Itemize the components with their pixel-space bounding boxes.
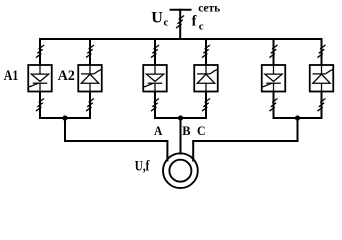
thyristor box col5 xyxy=(262,65,286,92)
thyristor box col6 xyxy=(310,65,334,92)
wire: top vertical col1 xyxy=(39,39,41,65)
wire: bottom vertical col2 xyxy=(89,92,91,119)
thyristor symbol col5 (cathode down) xyxy=(262,65,283,92)
thyristor symbol col3 (cathode down) xyxy=(143,65,164,92)
thyristor symbol col2 (cathode up) xyxy=(81,65,102,92)
svg-text:сеть: сеть xyxy=(198,3,220,15)
motor M inner circle xyxy=(169,160,191,182)
wire: phase A drop and run xyxy=(65,118,167,161)
svg-text:A2: A2 xyxy=(58,68,75,84)
wire: pair bus 1 xyxy=(40,117,90,119)
hatch bottom col2 xyxy=(86,99,94,112)
svg-text:f: f xyxy=(192,13,197,29)
wire: phase B drop xyxy=(180,118,182,154)
node junction pair2 xyxy=(178,115,183,120)
wire: pair bus 2 xyxy=(155,117,206,119)
wire: bottom vertical col1 xyxy=(39,92,41,119)
thyristor symbol col4 (cathode up) xyxy=(197,65,218,92)
wire: supply drop xyxy=(179,10,181,39)
hatch top col2 xyxy=(86,45,94,58)
thyristor box col3 xyxy=(143,65,167,92)
hatch top col3 xyxy=(151,45,159,58)
thyristor box A1 xyxy=(28,65,52,92)
wire: top bus xyxy=(40,38,322,40)
svg-text:B: B xyxy=(182,124,190,138)
wire: bottom vertical col6 xyxy=(321,92,323,119)
hatch top col6 xyxy=(318,45,326,58)
wire: top vertical col2 xyxy=(89,39,91,65)
hatch top col5 xyxy=(270,45,278,58)
hatch bottom col4 xyxy=(202,99,210,112)
thyristor symbol col1 (cathode down) xyxy=(28,65,49,92)
svg-text:A: A xyxy=(154,124,162,138)
wire: top vertical col6 xyxy=(321,39,323,65)
svg-text:U,f: U,f xyxy=(135,159,150,175)
hatch bottom col5 xyxy=(270,99,278,112)
node junction pair1 xyxy=(62,115,67,120)
thyristor box A2 xyxy=(78,65,102,92)
wire: top vertical col3 xyxy=(154,39,156,65)
wire: bottom vertical col5 xyxy=(273,92,275,119)
svg-text:c: c xyxy=(199,20,204,32)
svg-text:A1: A1 xyxy=(4,68,19,84)
svg-text:U: U xyxy=(151,9,163,26)
motor M outer circle xyxy=(163,153,198,188)
node junction pair3 xyxy=(295,115,300,120)
hatch top col1 xyxy=(36,45,44,58)
wire: top vertical col5 xyxy=(273,39,275,65)
wire: top vertical col4 xyxy=(205,39,207,65)
hatch bottom col1 xyxy=(36,99,44,112)
wire: bottom vertical col3 xyxy=(154,92,156,119)
hatch bottom col6 xyxy=(318,99,326,112)
hatch top col4 xyxy=(202,45,210,58)
svg-text:C: C xyxy=(197,124,206,138)
wire: bottom vertical col4 xyxy=(205,92,207,119)
wire: pair bus 3 xyxy=(274,117,322,119)
supply terminal bar xyxy=(171,9,191,11)
svg-text:c: c xyxy=(164,16,169,28)
thyristor symbol col6 (cathode up) xyxy=(313,65,334,92)
hatch on supply drop xyxy=(176,16,184,29)
hatch bottom col3 xyxy=(151,99,159,112)
wire: phase C drop and run xyxy=(193,118,297,161)
thyristor box col4 xyxy=(194,65,218,92)
